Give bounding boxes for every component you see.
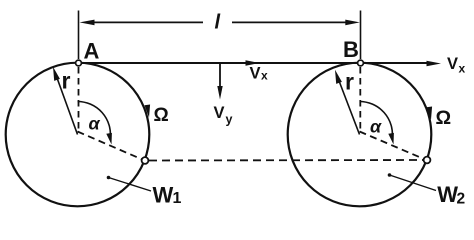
node B	[358, 60, 364, 66]
svg-text:α: α	[89, 114, 101, 134]
main horizontal line A to B to Vx arrow	[80, 62, 428, 64]
dashed vertical A to center W1	[78, 67, 80, 131]
leader line W2	[388, 173, 392, 177]
angle arc alpha W2	[360, 102, 393, 139]
extension line at B	[360, 11, 362, 60]
svg-text:y: y	[226, 113, 233, 127]
svg-text:r: r	[62, 68, 71, 94]
svg-text:x: x	[459, 62, 466, 76]
omega rotation arrowhead W1 on circle	[145, 105, 151, 118]
dashed horizontal line between contact nodes	[149, 159, 423, 162]
angle arc alpha W1	[78, 102, 111, 139]
svg-text:V: V	[214, 104, 225, 122]
omega rotation arrowhead W2 on circle	[427, 107, 433, 120]
svg-text:V: V	[250, 65, 261, 83]
mid arrowhead Vx	[246, 60, 261, 65]
dashed vertical B to center W2	[359, 67, 361, 131]
svg-text:Ω: Ω	[154, 105, 169, 126]
wheel W1 circle	[6, 63, 150, 207]
right arrowhead Vx	[427, 61, 442, 66]
svg-text:1: 1	[173, 190, 182, 207]
svg-text:2: 2	[457, 190, 466, 207]
svg-text:r: r	[345, 69, 354, 95]
contact node W2	[424, 157, 431, 164]
Vy arrow	[219, 63, 221, 87]
svg-text:W: W	[437, 182, 458, 207]
extension line at A	[78, 11, 80, 60]
svg-text:W: W	[153, 183, 174, 208]
leader line W1	[107, 176, 111, 180]
svg-text:x: x	[261, 69, 268, 83]
wheel W2 circle	[288, 63, 432, 207]
dimension line right segment with right arrowhead	[232, 21, 346, 23]
node A	[76, 60, 82, 66]
svg-text:l: l	[215, 12, 221, 34]
svg-text:α: α	[370, 117, 382, 137]
contact node W1	[142, 157, 149, 164]
dashed radius W2 center to contact node	[360, 132, 426, 160]
svg-text:V: V	[447, 55, 458, 73]
svg-text:A: A	[84, 39, 100, 64]
svg-text:B: B	[343, 37, 359, 62]
dashed radius W1 center to contact node	[78, 132, 144, 160]
svg-text:Ω: Ω	[436, 107, 452, 129]
radius arrow r W1	[57, 77, 78, 135]
radius arrow r W2	[339, 80, 360, 135]
dimension line left segment with left arrowhead	[94, 21, 203, 23]
